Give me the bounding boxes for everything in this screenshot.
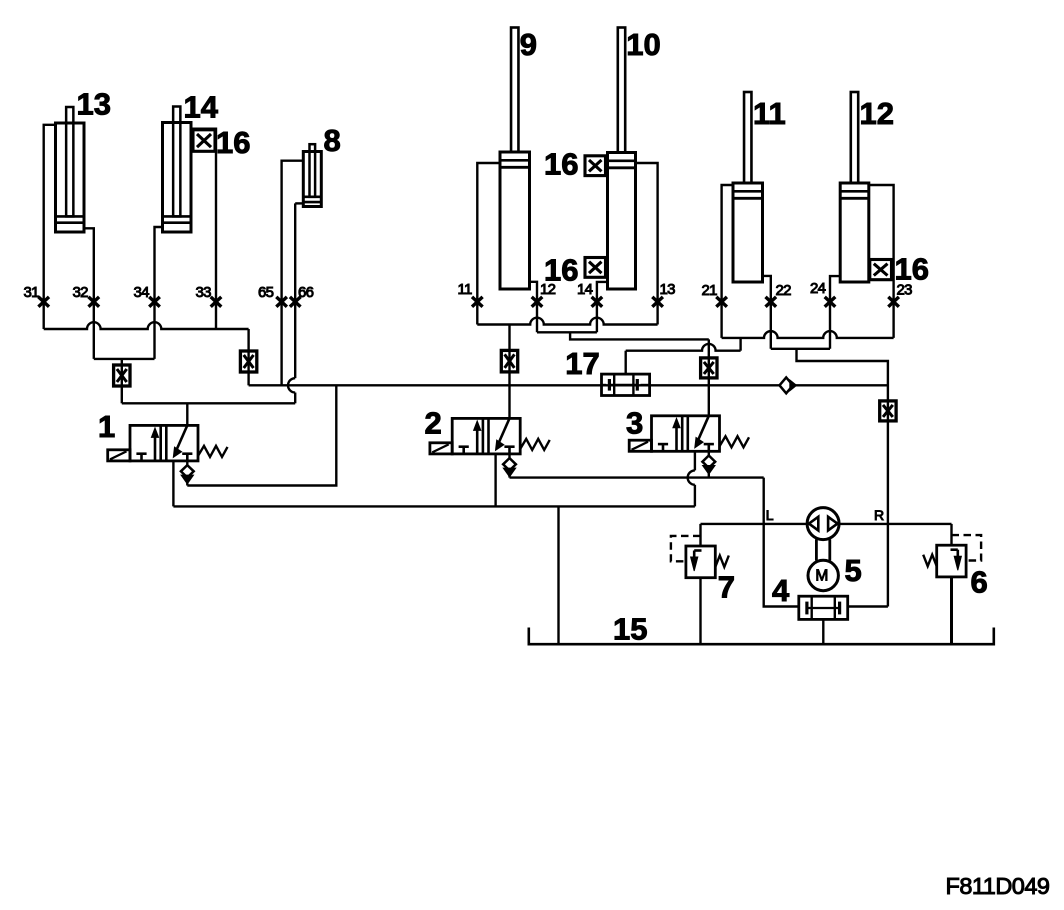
- breather filter 16 on cylinder 14: [193, 130, 215, 152]
- test point 22: [766, 297, 777, 307]
- svg-text:23: 23: [897, 281, 913, 298]
- svg-text:3: 3: [626, 406, 643, 441]
- test point 11: [472, 297, 483, 307]
- svg-text:32: 32: [73, 284, 89, 301]
- reservoir 15: [529, 628, 994, 645]
- filter on rod-side line: [240, 351, 256, 372]
- test point 14: [592, 297, 603, 307]
- node bus 31-33: [44, 322, 249, 329]
- filter above pump R-port: [880, 401, 896, 421]
- label R: [874, 507, 884, 523]
- label 17: [565, 346, 599, 381]
- label 5: [845, 553, 862, 588]
- cylinder 13: [56, 107, 85, 232]
- relief valve 7: [671, 536, 729, 578]
- label tp 24: [810, 280, 826, 297]
- svg-text:66: 66: [298, 284, 314, 301]
- label 7: [718, 570, 735, 605]
- pump-motor shaft: [816, 539, 829, 560]
- wire valve-2 A-port: [494, 454, 496, 507]
- svg-text:9: 9: [520, 27, 537, 62]
- wire filter-4 tank drop: [822, 619, 824, 644]
- label 10: [626, 27, 660, 62]
- svg-text:33: 33: [196, 284, 212, 301]
- motor M: [808, 560, 838, 590]
- check valve under valve 2: [503, 454, 516, 478]
- test point 33: [211, 297, 222, 307]
- label 14: [184, 90, 219, 125]
- suction filter 4: [799, 596, 848, 619]
- wire cyl10 rod-side port: [636, 163, 658, 325]
- svg-text:F811D049: F811D049: [946, 873, 1050, 899]
- cylinder 9: [500, 28, 530, 290]
- label tp 12: [540, 281, 556, 298]
- wire 12-14 drop: [570, 332, 709, 339]
- label 3: [626, 406, 643, 441]
- wire bus drop to valve-1 top line: [121, 359, 123, 403]
- label 16 right: [895, 252, 929, 287]
- wire bus drop to valve 2 top: [508, 325, 510, 419]
- test point 32: [89, 297, 100, 307]
- wire cyl8 rod-side port: [282, 161, 304, 386]
- check valve on pressure line: [780, 377, 797, 393]
- wire 17 pilot line to bus 21-23: [626, 338, 741, 351]
- wire suction to pump filter 4: [764, 478, 799, 607]
- label tp 13: [660, 281, 676, 298]
- wire cyl9 rod-side port: [477, 163, 500, 325]
- test point 24: [825, 297, 836, 307]
- wire valve-1 top line: [122, 402, 295, 404]
- svg-text:65: 65: [258, 284, 274, 301]
- label 6: [971, 565, 988, 600]
- label 1: [98, 409, 115, 444]
- valve 2 (3/2 solenoid valve): [430, 418, 550, 454]
- test point 13: [652, 297, 663, 307]
- orifice coupling 17: [602, 374, 650, 395]
- wire cyl12 base port: [830, 276, 840, 349]
- label tp 11: [458, 281, 473, 298]
- label tp 22: [776, 282, 792, 299]
- label 33: [196, 284, 212, 301]
- svg-text:12: 12: [540, 281, 556, 298]
- wire pump L line: [701, 523, 808, 525]
- wire 22-24 drop to pump R riser: [797, 349, 888, 607]
- node bus 22-24: [771, 348, 830, 350]
- svg-text:11: 11: [753, 96, 786, 131]
- cylinder 12: [840, 92, 869, 282]
- caption F811D049: [946, 873, 1050, 899]
- svg-text:14: 14: [184, 90, 219, 125]
- svg-text:8: 8: [324, 123, 341, 158]
- wire cyl14 base port: [155, 227, 163, 359]
- label 11: [753, 96, 786, 131]
- label 16 top-left: [216, 125, 250, 160]
- label 65: [258, 284, 274, 301]
- node bus 12-14: [537, 331, 597, 333]
- wire cyl10 base port: [597, 282, 608, 332]
- wire valve-3 A-port (hops suction line): [688, 451, 695, 506]
- svg-text:6: 6: [971, 565, 988, 600]
- label 13: [77, 86, 111, 121]
- wire relief-7 tank line: [699, 578, 701, 645]
- svg-text:16: 16: [544, 147, 578, 182]
- wire cyl13 base port: [84, 228, 94, 359]
- wire tank riser: [557, 506, 559, 644]
- label 66: [298, 284, 314, 301]
- label 9: [520, 27, 537, 62]
- svg-text:M: M: [815, 567, 828, 584]
- svg-text:22: 22: [776, 282, 792, 299]
- test point 34: [149, 297, 160, 307]
- node bus 32-34: [94, 358, 155, 360]
- wire cyl13 rod-side port: [44, 125, 56, 329]
- test point 65: [276, 297, 287, 307]
- test point 66: [290, 297, 301, 307]
- cylinder 11: [733, 92, 763, 282]
- wire cyl11 rod-side port: [722, 185, 733, 338]
- breather filter 16 top of cylinder 10: [585, 156, 606, 176]
- label 8: [324, 123, 341, 158]
- label 12: [860, 96, 894, 131]
- svg-text:1: 1: [98, 409, 115, 444]
- svg-text:4: 4: [772, 573, 790, 608]
- filter above valve 1: [114, 365, 130, 386]
- wire valve-1 top port: [186, 403, 188, 425]
- svg-text:L: L: [766, 507, 774, 523]
- cylinder 10: [608, 28, 636, 290]
- svg-text:13: 13: [660, 281, 676, 298]
- wire cyl11 base port: [763, 276, 771, 349]
- check valve under valve 3: [702, 451, 715, 477]
- label 34: [134, 284, 150, 301]
- svg-text:R: R: [874, 507, 884, 523]
- label 16 middle-bottom: [544, 253, 578, 288]
- svg-text:14: 14: [577, 281, 593, 298]
- svg-text:2: 2: [425, 406, 442, 441]
- breather filter 16 bottom of cylinder 10: [585, 258, 606, 278]
- test point 12: [532, 297, 543, 307]
- svg-text:10: 10: [626, 27, 660, 62]
- label tp 23: [897, 281, 913, 298]
- cylinder 8: [303, 144, 321, 206]
- svg-text:31: 31: [24, 284, 40, 301]
- svg-text:5: 5: [845, 553, 862, 588]
- svg-text:21: 21: [702, 282, 718, 299]
- svg-text:12: 12: [860, 96, 894, 131]
- wire filter-4 to pump R riser: [848, 605, 888, 607]
- svg-text:11: 11: [458, 281, 473, 298]
- wire cyl8 base port (hops pressure line): [288, 203, 295, 403]
- cylinder 14: [163, 107, 192, 233]
- wire cyl14 rod-side port to test point 33: [191, 129, 216, 329]
- label 31: [24, 284, 40, 301]
- valve 1 (3/2 solenoid valve): [108, 425, 228, 461]
- wire cyl12 rod-side port: [869, 185, 894, 338]
- svg-text:24: 24: [810, 280, 826, 297]
- node bus 21-23: [722, 331, 894, 338]
- wire valve-1 check to pressure line: [187, 385, 336, 485]
- label 16 middle-top: [544, 147, 578, 182]
- filter above valve 2: [501, 350, 517, 372]
- wire bus drop to pressure line: [247, 329, 249, 385]
- label tp 14: [577, 281, 593, 298]
- wire valve-3 top riser: [708, 339, 710, 415]
- wire 17 top port: [625, 351, 627, 374]
- wire cyl9 base port: [530, 282, 538, 333]
- valve 3 (3/2 solenoid valve): [629, 416, 749, 452]
- test point 21: [716, 297, 727, 307]
- wire relief-7 riser: [699, 524, 701, 546]
- test point 23: [888, 297, 899, 307]
- label 2: [425, 406, 442, 441]
- svg-text:15: 15: [613, 612, 647, 647]
- label tp 21: [702, 282, 718, 299]
- filter above valve 3: [701, 358, 717, 378]
- check valve under valve 1: [181, 461, 194, 486]
- svg-text:16: 16: [216, 125, 250, 160]
- svg-text:17: 17: [565, 346, 599, 381]
- relief valve 6: [923, 535, 981, 577]
- pump 5: [807, 508, 839, 540]
- label L: [766, 507, 774, 523]
- svg-text:13: 13: [77, 86, 111, 121]
- node return line B: [173, 505, 695, 507]
- breather filter 16 on cylinder 12: [870, 260, 892, 280]
- label 4: [772, 573, 790, 608]
- wire valve-1 A-port: [172, 461, 174, 507]
- wire pump R line: [839, 523, 951, 525]
- wire cyl8 base stub: [295, 202, 303, 204]
- node pressure line: [249, 384, 888, 386]
- label 15: [613, 612, 647, 647]
- test point 31: [38, 297, 49, 307]
- svg-text:7: 7: [718, 570, 735, 605]
- node bus 11-13: [477, 318, 657, 325]
- wire relief-6 riser: [950, 524, 952, 545]
- wire relief-6 tank line: [950, 577, 953, 644]
- label 32: [73, 284, 89, 301]
- svg-text:34: 34: [134, 284, 150, 301]
- node suction line A: [510, 476, 764, 478]
